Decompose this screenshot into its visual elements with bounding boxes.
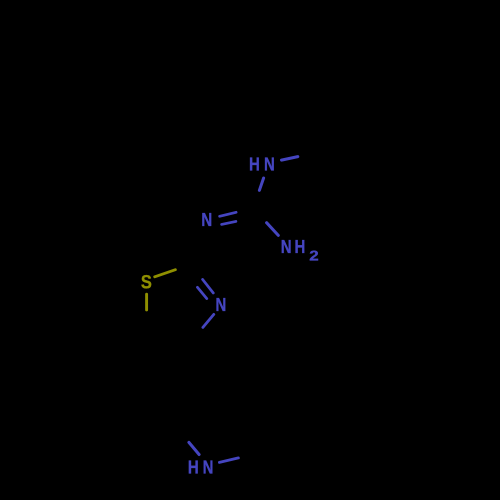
indole bond N1-C2, nitrogen half xyxy=(219,458,238,463)
thiazole double bond C2=N3 inner line, nitrogen half xyxy=(197,287,206,298)
double bond C=N lower line, nitrogen half xyxy=(222,221,236,224)
thiazole bond S1-C5, sulfur half xyxy=(145,294,148,310)
thiazole double bond C2=N3 outer line, nitrogen half xyxy=(203,279,214,293)
svg-text:N: N xyxy=(264,154,275,175)
bond HN to phenyl C, nitrogen half xyxy=(282,157,298,161)
indole bond C7a-N1, nitrogen half xyxy=(189,442,199,454)
svg-text:H: H xyxy=(188,457,199,478)
bond HN to guanidine C, nitrogen half xyxy=(259,178,263,190)
svg-text:H: H xyxy=(295,236,306,257)
svg-text:N: N xyxy=(216,295,227,316)
thiazole bond S1-C2, sulfur half xyxy=(155,270,176,277)
thiazole bond N3-C4, nitrogen half xyxy=(203,314,214,327)
svg-text:N: N xyxy=(281,236,292,257)
bond guanidine C to NH2, nitrogen half xyxy=(267,223,279,236)
svg-text:S: S xyxy=(141,271,152,293)
svg-text:N: N xyxy=(203,457,214,478)
double bond C=N upper line, nitrogen half xyxy=(220,212,237,216)
svg-text:H: H xyxy=(249,154,260,175)
svg-text:2: 2 xyxy=(309,247,318,264)
svg-text:N: N xyxy=(201,210,212,231)
